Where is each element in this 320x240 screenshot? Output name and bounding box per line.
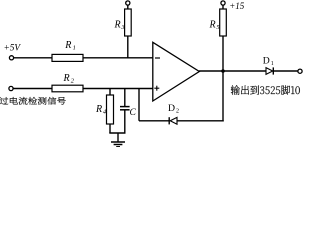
wire: ground stub <box>117 133 119 142</box>
label: overcurrent detect signal (CJK vector text) <box>0 97 66 105</box>
wire: D2 to right riser <box>177 120 224 122</box>
resistor R2 body <box>52 85 83 92</box>
wire: R1 to op-amp inverting input <box>83 57 153 59</box>
terminal: R3 top <box>126 1 130 5</box>
label: output to 3525 pin 10 (CJK vector text) <box>231 85 300 95</box>
op-amp minus sign <box>155 57 160 59</box>
terminal: output <box>298 69 302 73</box>
wire: R4 top lead <box>109 89 111 96</box>
wire: feedback drop from non-inverting rail <box>138 89 140 121</box>
wire: R3 lead down to inverting rail <box>127 36 129 58</box>
wire: R5 top lead <box>222 5 224 9</box>
diode D1 (output, pointing right) <box>266 67 273 74</box>
wire: R2 to op-amp non-inverting input <box>83 88 153 90</box>
wire: +5V terminal to R1 <box>14 57 52 59</box>
terminal: +15 supply <box>221 1 225 5</box>
svg-text:C: C <box>130 108 137 118</box>
ground symbol <box>111 142 125 147</box>
junction node: output/R5/riser <box>221 69 225 73</box>
wire: D1 to output terminal <box>274 70 298 72</box>
terminal: overcurrent signal input <box>9 86 13 90</box>
op-amp comparator U1 <box>153 42 200 101</box>
resistor R1 body <box>52 54 83 61</box>
svg-text:+15: +15 <box>229 1 245 11</box>
op-amp plus sign <box>154 86 159 91</box>
wire: feedback rail to D2 <box>139 120 169 122</box>
wire: input terminal to R2 <box>13 88 52 90</box>
wire: op-amp output to node <box>199 70 223 72</box>
wire: R5 lead down to output node <box>222 36 224 71</box>
wire: output node to D1 <box>223 70 266 72</box>
terminal +5V input <box>9 56 13 60</box>
svg-text:+5V: +5V <box>4 44 22 54</box>
wire: capacitor bottom lead <box>124 110 126 133</box>
wire: right riser up to output node <box>222 71 224 122</box>
wire: R4 bottom lead <box>109 124 111 133</box>
wire: R3 top lead to +terminal <box>127 5 129 9</box>
capacitor C plates <box>120 107 130 110</box>
wire: capacitor top lead <box>124 89 126 107</box>
diode D2 (feedback, pointing left) <box>169 117 177 124</box>
wire: R4/C bottom joining wire <box>109 132 125 134</box>
resistor R3 body <box>125 9 132 36</box>
resistor R4 body <box>107 95 114 124</box>
resistor R5 body <box>220 9 227 36</box>
